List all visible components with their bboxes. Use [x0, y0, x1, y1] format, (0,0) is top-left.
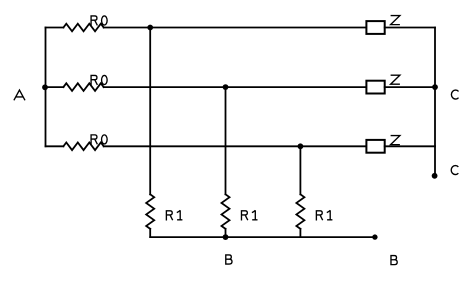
junction dot phase2 [223, 84, 229, 90]
label terminal B [391, 256, 397, 266]
junction dot phase3 [298, 143, 304, 149]
impedance Z phase2 [366, 81, 384, 94]
wire right bus to terminal C [434, 28, 436, 176]
wire R1 #3 to neutral bus [299, 229, 301, 237]
resistor R0 phase1 [63, 24, 103, 32]
resistor R1 #1 [146, 194, 154, 229]
label R0 phase3 [91, 135, 107, 145]
resistor R0 phase3 [63, 143, 103, 151]
label R1 #1 [166, 210, 182, 220]
wire phase1 R0 to Z [104, 27, 367, 29]
terminal dot B [372, 234, 377, 239]
label R0 phase2 [91, 75, 107, 85]
wire phase3 R0 to Z [104, 145, 367, 147]
wire phase2 Z to right bus [385, 86, 435, 88]
resistor R0 phase2 [63, 83, 103, 91]
resistor R1 #2 [222, 194, 230, 229]
label terminal C [451, 166, 458, 175]
label R0 phase1 [91, 16, 107, 26]
wire phase2 R0 to Z [104, 86, 367, 88]
wire drop phase1 to R1 [149, 28, 151, 195]
wire phase2 left bus to R0 [46, 86, 64, 88]
label node C (junction) [451, 90, 458, 99]
wire R1 #1 to neutral bus [149, 229, 151, 237]
label node B (junction) [226, 255, 232, 265]
junction dot phase1 [147, 25, 153, 31]
node A junction dot [42, 84, 48, 90]
label Z phase1 [391, 16, 400, 25]
wire drop phase2 to R1 [225, 87, 227, 194]
junction dot right bus node C [432, 84, 438, 90]
label Z phase3 [391, 136, 400, 145]
impedance Z phase3 [366, 140, 384, 153]
wire phase1 left bus to R0 [46, 27, 64, 29]
wire phase3 Z to right bus [385, 145, 435, 147]
label node A [14, 90, 25, 100]
wire R1 #2 to neutral bus [225, 229, 227, 237]
resistor R1 #3 [296, 194, 304, 229]
label R1 #2 [241, 210, 257, 220]
wire drop phase3 to R1 [299, 146, 301, 194]
wire left bus (node A vertical) [45, 28, 47, 147]
label R1 #3 [316, 210, 332, 220]
wire phase3 left bus to R0 [46, 145, 64, 147]
terminal dot C [432, 173, 438, 179]
impedance Z phase1 [366, 21, 384, 34]
wire phase1 Z to right bus [385, 27, 435, 29]
label Z phase2 [391, 75, 400, 84]
junction dot neutral bus node B [223, 234, 229, 240]
wire neutral bus B [150, 236, 375, 238]
